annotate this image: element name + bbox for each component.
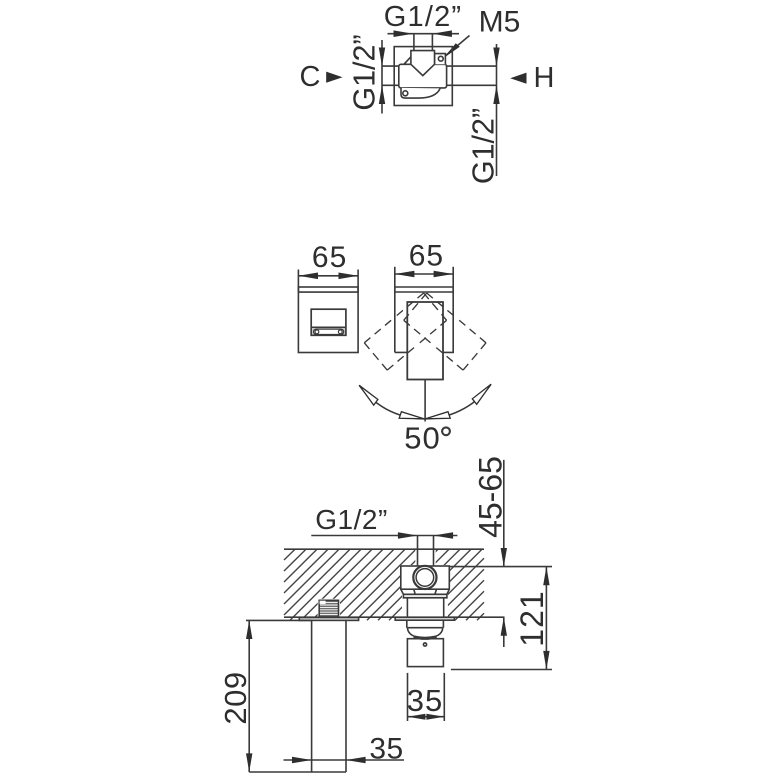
label G1/2" right rotated bbox=[467, 108, 501, 184]
extension line handle bottom right bbox=[451, 669, 552, 671]
label 50 degrees bbox=[404, 421, 440, 456]
dome bottom curve bbox=[414, 637, 437, 639]
handle body bbox=[407, 639, 443, 667]
thin plate bbox=[403, 594, 447, 598]
arc arrow right end bbox=[472, 384, 491, 404]
arc arrow bottom pointing left bbox=[426, 412, 451, 419]
arrow left dim lower (points up) bbox=[379, 85, 385, 104]
plate rim line bbox=[298, 291, 358, 293]
dashed diamond right (handle rotated +50) bbox=[404, 293, 486, 370]
dim line 121 bbox=[545, 567, 547, 670]
arrow 121 lower (points down) bbox=[543, 651, 549, 670]
mask: under-valve housing region bbox=[402, 589, 448, 618]
svg-text:65: 65 bbox=[312, 241, 347, 274]
valve rough body box bbox=[401, 566, 450, 589]
arrow right dim upper (points down) bbox=[493, 48, 499, 67]
svg-text:M5: M5 bbox=[479, 6, 521, 39]
cartridge inner circle bbox=[416, 569, 434, 587]
dim line 65 left bbox=[298, 275, 358, 277]
dim line 45-65 bbox=[503, 460, 505, 567]
arrow 35 spout right (points left) bbox=[346, 757, 366, 764]
arrow 209 lower (points down) bbox=[246, 753, 252, 772]
mask: supply pipe channel bbox=[415, 536, 435, 567]
arrow 121 upper (points up) bbox=[543, 567, 549, 586]
svg-text:65: 65 bbox=[409, 240, 444, 273]
arrow 35 valve left (points left) bbox=[408, 714, 426, 720]
arrow H (filled triangle pointing left) bbox=[510, 73, 526, 84]
arrow left dim upper (points down) bbox=[379, 48, 385, 67]
cartridge outer circle bbox=[413, 566, 436, 589]
label 35 spout bbox=[369, 733, 403, 766]
label 121 rotated bbox=[514, 590, 550, 646]
svg-text:H: H bbox=[534, 62, 555, 94]
window inner line bbox=[311, 326, 346, 328]
M5 leader arrow bbox=[443, 43, 460, 58]
arrow 65 left-left bbox=[298, 273, 318, 280]
svg-text:G1/2”: G1/2” bbox=[467, 108, 501, 184]
wall plate square front view bbox=[298, 287, 358, 353]
mask: thread stub region bbox=[318, 599, 340, 618]
handle center line bbox=[424, 380, 426, 422]
arrow 65 left-right bbox=[339, 273, 359, 280]
label 209 rotated bbox=[218, 671, 253, 724]
svg-text:G1/2”: G1/2” bbox=[348, 34, 382, 110]
rotation arc 50deg bbox=[359, 384, 491, 419]
mask: valve body region bbox=[401, 565, 450, 591]
handle dome bbox=[407, 628, 442, 638]
port extension lines top bbox=[413, 34, 415, 51]
dimension line G1/2 top bbox=[388, 33, 460, 35]
pipe right wire bbox=[447, 65, 497, 67]
arrow 35 spout left (points right) bbox=[292, 757, 312, 764]
label 45-65 rotated bbox=[473, 456, 509, 538]
neck trapezoid left side bbox=[401, 589, 415, 594]
dim line right vertical bbox=[496, 44, 498, 176]
screw circle bottom left bbox=[403, 91, 408, 96]
chamfer diagonal left bbox=[404, 57, 411, 65]
plate rim line right bbox=[395, 291, 453, 293]
arrow 65 right-right bbox=[434, 271, 454, 278]
label C bbox=[300, 61, 321, 93]
valve body top view bbox=[399, 64, 447, 88]
dim line 35 spout bbox=[284, 759, 405, 761]
screw circle top right bbox=[438, 56, 443, 61]
lever pill bbox=[314, 329, 344, 334]
M5 leader line bbox=[444, 36, 470, 58]
arrow dim top right bbox=[432, 30, 452, 37]
arrow 65 right-left bbox=[395, 271, 415, 278]
handle screw dot bbox=[423, 643, 426, 646]
arrow C (filled triangle pointing right) bbox=[326, 72, 342, 83]
extension line wall bottom right bbox=[484, 616, 505, 618]
handle window front view bbox=[311, 309, 346, 335]
dim line 65 right bbox=[395, 273, 453, 275]
valve collar below flange bbox=[407, 620, 444, 628]
arrow 35 valve right (points right) bbox=[426, 714, 444, 720]
thread stub (spout fixing) bbox=[319, 600, 338, 617]
arc arrow left end bbox=[359, 385, 378, 405]
dim line 35 valve bbox=[408, 716, 445, 718]
wall plate square side (right view) bbox=[395, 287, 453, 352]
pill circle right bbox=[338, 330, 342, 334]
svg-text:C: C bbox=[300, 61, 321, 93]
arrow 45-65 lower (points up) bbox=[501, 617, 507, 636]
lever bar strip shading bbox=[312, 328, 345, 334]
arrow to pipe left (points right) bbox=[398, 532, 418, 539]
housing box in wall bbox=[407, 598, 443, 617]
svg-text:50: 50 bbox=[404, 421, 440, 456]
pipe left wire bbox=[382, 65, 399, 67]
arc arrow bottom pointing right bbox=[399, 412, 424, 419]
bottom flap bbox=[401, 88, 440, 98]
arrow dim top left bbox=[394, 30, 414, 37]
svg-text:121: 121 bbox=[514, 590, 550, 646]
label 35 valve bbox=[407, 683, 443, 718]
spout pipe bbox=[311, 621, 313, 772]
label 65 left bbox=[312, 241, 347, 274]
bottom end line bbox=[249, 771, 346, 773]
svg-text:209: 209 bbox=[218, 671, 253, 724]
extension lines 35 valve bbox=[407, 673, 409, 721]
outer square top view bbox=[394, 47, 452, 106]
svg-text:G1/2”: G1/2” bbox=[315, 504, 388, 535]
cap with V notch bbox=[411, 51, 435, 76]
neck trapezoid right side bbox=[435, 589, 449, 594]
extension line valve top right bbox=[449, 566, 552, 568]
label G1/2" bottom bbox=[315, 504, 388, 535]
wall top line bbox=[284, 548, 484, 550]
label M5 bbox=[479, 6, 521, 39]
pill circle left bbox=[315, 330, 319, 334]
label H bbox=[534, 62, 555, 94]
svg-text:G1/2”: G1/2” bbox=[384, 1, 463, 33]
valve flange escutcheon bbox=[395, 617, 454, 620]
handle rectangle bbox=[407, 302, 443, 380]
label G1/2" left rotated bbox=[348, 34, 382, 110]
svg-text:35: 35 bbox=[407, 683, 443, 718]
spout flange plate bbox=[299, 618, 358, 621]
label 65 right bbox=[409, 240, 444, 273]
hatch pattern wall bbox=[284, 549, 484, 620]
supply pipe lines bbox=[417, 536, 419, 567]
screw plate top right bbox=[435, 54, 446, 65]
leader line under G1/2 bbox=[311, 535, 457, 537]
dim line 209 bbox=[248, 620, 250, 772]
wall bottom line bbox=[284, 616, 484, 618]
dim line left vertical bbox=[381, 40, 383, 114]
label G1/2" top bbox=[384, 1, 463, 33]
dashed diamond left (handle rotated -50) bbox=[364, 293, 446, 370]
arrow 209 upper (points up) bbox=[246, 620, 252, 639]
extension line spout flange left bbox=[246, 619, 312, 621]
arrow right dim lower (points up) bbox=[493, 85, 499, 104]
arrow 45-65 upper (points down) bbox=[501, 548, 507, 567]
arrow to pipe right (points left) bbox=[434, 532, 454, 539]
